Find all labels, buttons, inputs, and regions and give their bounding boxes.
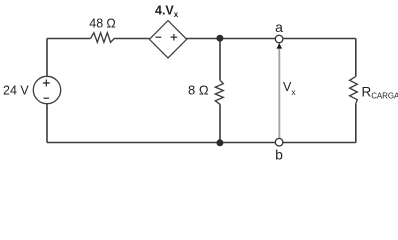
wire right vertical upper — [355, 39, 357, 77]
plus sign inside diamond — [171, 34, 178, 41]
wire right vertical lower — [355, 104, 357, 143]
Vx arrowhead — [277, 43, 283, 49]
svg-text:RCARGA: RCARGA — [362, 85, 398, 101]
svg-text:a: a — [275, 19, 283, 35]
Vx arrow shaft — [278, 48, 280, 138]
wire left vertical lower — [46, 104, 48, 143]
resistor R 8ohm zigzag — [215, 80, 223, 104]
wire 8ohm branch upper — [219, 39, 221, 81]
wire top-left horizontal — [47, 38, 91, 40]
wire diamond to node a — [187, 38, 276, 40]
svg-text:8 Ω: 8 Ω — [188, 83, 209, 98]
resistor RCARGA zigzag — [350, 76, 358, 103]
wire left vertical upper — [46, 39, 48, 77]
wire bottom right horizontal — [283, 142, 356, 144]
dependent source U1 diamond — [149, 21, 186, 58]
minus sign inside diamond — [156, 36, 162, 38]
node b terminal circle — [275, 138, 283, 146]
voltage source V1 circle — [33, 76, 60, 103]
wire node a to top-right corner — [283, 38, 356, 40]
minus sign inside source V1 — [44, 97, 50, 99]
svg-text:4.Vx: 4.Vx — [155, 3, 179, 19]
junction dot top of 8ohm — [216, 35, 223, 42]
resistor R 48ohm zigzag — [91, 33, 115, 43]
junction dot bottom of 8ohm — [216, 139, 223, 146]
wire resistor to dependent source — [114, 38, 150, 40]
svg-text:24 V: 24 V — [3, 83, 29, 97]
svg-text:b: b — [275, 146, 283, 162]
svg-text:Vx: Vx — [283, 80, 296, 97]
node a terminal circle — [275, 35, 283, 43]
svg-text:48Ω: 48Ω — [89, 17, 115, 31]
plus sign inside source V1 — [43, 80, 50, 87]
wire 8ohm branch lower — [219, 104, 221, 142]
wire bottom left horizontal — [47, 142, 275, 144]
